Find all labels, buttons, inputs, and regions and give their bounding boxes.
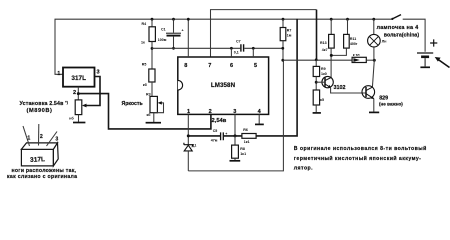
svg-text:5: 5: [254, 63, 257, 69]
ground trimmer: [78, 115, 80, 122]
wire Q2 emitter: [373, 99, 375, 112]
wire bottom return rail: [188, 60, 283, 171]
svg-text:2: 2: [73, 90, 76, 96]
wire R9 bottom: [315, 77, 317, 91]
pot wiper arrowhead: [158, 101, 162, 104]
resistor R11: [344, 34, 350, 48]
svg-text:C1: C1: [161, 27, 166, 31]
wire lamp top: [373, 19, 375, 35]
wire pin3 to trimmer wiper: [84, 77, 100, 106]
ground pot: [146, 122, 161, 124]
node pin8 rail: [187, 18, 190, 21]
svg-text:100м: 100м: [158, 38, 167, 42]
wire inverting input rail: [152, 47, 240, 49]
svg-text:R7: R7: [287, 29, 292, 33]
node R7/feedback: [281, 47, 284, 50]
lamp HL1: [368, 34, 381, 47]
wire R7 top: [282, 19, 284, 27]
svg-text:4к7: 4к7: [322, 48, 328, 52]
resistor R9: [313, 66, 319, 76]
node pin6: [230, 47, 233, 50]
wire R14 bottom: [315, 105, 317, 112]
resistor R8: [232, 145, 239, 158]
node lamp/R12/collector: [373, 59, 376, 62]
resistor R5: [149, 69, 155, 82]
svg-text:47м: 47м: [211, 138, 218, 142]
node R10/R11 junction: [330, 54, 333, 57]
wire pin7 top rail: [211, 10, 317, 58]
wire vertical drop rail-B to R9 chain: [316, 10, 318, 60]
svg-text:R5: R5: [142, 63, 147, 67]
arrow to battery: [435, 57, 450, 68]
svg-text:вольта(china): вольта(china): [384, 32, 420, 38]
svg-text:1: 1: [27, 135, 30, 141]
svg-text:2: 2: [40, 134, 43, 140]
svg-text:0,1: 0,1: [234, 51, 239, 55]
potentiometer Яркость: [150, 96, 157, 112]
svg-text:1к0: 1к0: [321, 72, 327, 76]
zener D1: [184, 143, 193, 171]
node R10 rail: [330, 18, 333, 21]
svg-text:R4: R4: [142, 22, 147, 26]
node R7 bottom: [281, 59, 284, 62]
wire R4 top: [151, 19, 153, 27]
svg-text:3: 3: [55, 136, 58, 142]
wire pin2 down: [77, 87, 79, 100]
package lead 2: [38, 124, 40, 146]
svg-text:1: 1: [57, 71, 60, 77]
label battery plus: [430, 39, 437, 46]
node R7 top: [282, 18, 285, 21]
wire pin3 down: [234, 114, 236, 135]
resistor R4: [149, 27, 155, 42]
wire +V top rail: [55, 19, 393, 74]
svg-text:1к1: 1к1: [244, 140, 250, 144]
wire Q1 base: [316, 81, 325, 83]
svg-text:Яркость: Яркость: [122, 101, 143, 107]
wire pin8 up: [187, 19, 189, 57]
transistor Q2 829: [362, 86, 375, 99]
wire C2 to node: [224, 135, 242, 137]
svg-text:к5: к5: [320, 98, 324, 102]
wire R5 bottom: [151, 82, 153, 96]
ground pin4: [255, 123, 264, 125]
node pin2/ADJ junction: [77, 92, 80, 95]
wire R11 bottom L to node: [331, 48, 346, 55]
wire pin6 up: [230, 48, 232, 57]
ground R8: [230, 160, 241, 162]
svg-text:к тл: к тл: [353, 53, 361, 57]
svg-text:(не важно): (не важно): [379, 102, 403, 107]
svg-text:R8: R8: [240, 147, 245, 151]
ground Q2 emitter: [369, 111, 379, 113]
svg-text:R13: R13: [320, 41, 327, 45]
svg-text:C7: C7: [236, 40, 241, 44]
transistor package 317L 3D view: [21, 143, 58, 166]
svg-text:R9: R9: [321, 67, 326, 71]
wire pin4 down: [258, 114, 260, 123]
capacitor C2 plates: [221, 132, 224, 140]
svg-text:R6: R6: [243, 128, 248, 132]
node R9 rail: [315, 58, 318, 61]
svg-text:1к1: 1к1: [240, 152, 246, 156]
battery GB1: [417, 53, 433, 67]
wire switch to battery: [403, 19, 425, 52]
wire after C3: [244, 47, 282, 49]
svg-text:7: 7: [208, 63, 211, 69]
wire pin1 down: [187, 114, 189, 144]
svg-text:Д1: Д1: [192, 144, 197, 148]
svg-text:лампочка на 4: лампочка на 4: [377, 25, 420, 31]
wire pin5 up: [252, 48, 254, 57]
svg-text:2: 2: [209, 109, 212, 115]
regulator U2 317L: [63, 68, 95, 87]
wire R10 bottom / collector vertical: [330, 48, 332, 78]
capacitor C1: [166, 19, 181, 48]
capacitor C3 plates: [241, 44, 244, 51]
wire ADJ thick path to IC pin2: [78, 94, 211, 129]
wire R8 bottom: [234, 158, 236, 160]
wire Q1 emitter to Q2 base: [331, 88, 366, 93]
svg-text:1к: 1к: [141, 41, 145, 45]
resistor R6: [242, 134, 256, 139]
node pin5: [252, 47, 255, 50]
svg-text:+: +: [182, 29, 184, 33]
wire pot bottom: [153, 113, 155, 122]
svg-text:3: 3: [96, 70, 99, 76]
svg-text:C5: C5: [213, 129, 218, 133]
wire lamp bottom: [373, 47, 375, 60]
wire R4 bottom: [151, 42, 153, 70]
resistor R10: [329, 34, 335, 48]
svg-text:Лн: Лн: [382, 39, 387, 43]
svg-text:829: 829: [379, 95, 388, 101]
svg-text:1: 1: [187, 109, 190, 115]
node C1 top: [172, 18, 175, 21]
svg-text:лятор.: лятор.: [294, 165, 313, 171]
pot wiper loop: [154, 103, 164, 113]
svg-text:6: 6: [230, 63, 233, 69]
resistor R12 with diode mark: [352, 57, 366, 62]
wire comparator output rail: [283, 59, 352, 61]
svg-text:(М890В): (М890В): [27, 108, 53, 114]
node lamp top rail: [372, 18, 375, 21]
transistor Q1 3102: [322, 76, 333, 88]
package lead 1: [23, 126, 30, 146]
svg-text:3: 3: [233, 109, 236, 115]
svg-text:1м: 1м: [287, 34, 292, 38]
resistor R7: [280, 28, 286, 41]
switch S1: [391, 15, 401, 20]
wire pin1 node to C2: [188, 135, 220, 137]
node pin1: [187, 134, 190, 137]
svg-text:В оригинале использовался 8-ти: В оригинале использовался 8-ти вольтовый: [294, 145, 427, 152]
svg-text:LM358N: LM358N: [211, 82, 236, 89]
svg-text:нб: нб: [69, 116, 74, 120]
wire R10 top: [330, 19, 332, 34]
svg-text:2,54в: 2,54в: [212, 118, 227, 124]
wire R7 bottom: [282, 41, 284, 61]
node pin3/R8/R6: [234, 134, 237, 137]
svg-text:как слизано с оригинала: как слизано с оригинала: [7, 174, 77, 180]
wire R12 right: [366, 59, 374, 61]
svg-text:400г: 400г: [350, 42, 358, 46]
wire R9 top: [315, 60, 317, 67]
node R11 rail: [346, 18, 349, 21]
svg-text:317L: 317L: [30, 156, 45, 164]
resistor R14: [313, 90, 319, 105]
svg-text:Установка 2.54в *): Установка 2.54в *): [20, 101, 69, 108]
svg-text:герметичный кислотный японский: герметичный кислотный японский аккуму-: [294, 155, 422, 162]
wire Q2 collector: [372, 60, 374, 87]
node R4/R5: [151, 47, 154, 50]
node C1 bottom: [172, 47, 175, 50]
package lead 3: [47, 132, 58, 147]
trimmer RP1: [75, 100, 82, 115]
node R4 top: [151, 18, 154, 21]
svg-text:ноги расположены так,: ноги расположены так,: [12, 168, 77, 174]
op-amp U1 LM358N: [178, 57, 269, 114]
svg-text:317L: 317L: [71, 75, 86, 82]
wire R11 top: [347, 19, 349, 34]
wire R8 top: [234, 136, 236, 145]
svg-text:8: 8: [184, 63, 187, 69]
node base divider: [315, 81, 318, 84]
wiper arrowhead: [82, 104, 87, 108]
ground R14: [313, 112, 321, 114]
wire R6 to +rail: [256, 19, 297, 136]
svg-text:3102: 3102: [334, 85, 346, 91]
svg-text:R11: R11: [350, 37, 356, 41]
